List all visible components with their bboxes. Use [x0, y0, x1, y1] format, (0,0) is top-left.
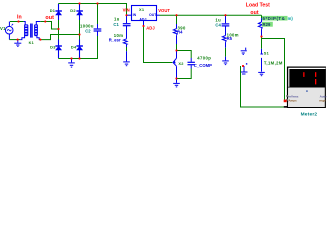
wire top rail to VIN — [59, 4, 127, 16]
junction dot secondary bottom pin — [39, 39, 41, 41]
junction dot meter minus — [242, 65, 244, 67]
meter digit segment 2 — [315, 72, 316, 77]
ground (floating, upper) — [241, 48, 247, 55]
diode D4 — [76, 40, 83, 59]
svg-text:R5: R5 — [227, 36, 233, 41]
svg-text:R_esr: R_esr — [109, 37, 121, 42]
svg-text:D2: D2 — [70, 8, 76, 13]
junction dot X2 top — [176, 50, 178, 52]
junction dot bridge left mid — [58, 28, 60, 30]
junction dot C4 top — [225, 14, 227, 16]
svg-text:R4: R4 — [177, 30, 183, 35]
ground (source/primary) — [14, 40, 21, 47]
wire secondary top to bridge left mid — [40, 22, 58, 30]
junction dot VIN — [126, 14, 128, 16]
node ADJ dot — [143, 25, 145, 27]
svg-text:K1: K1 — [29, 41, 34, 45]
wire load node to meter plus — [262, 37, 285, 100]
wire bottom rail — [59, 31, 98, 59]
junction dot D4 bottom — [79, 58, 81, 60]
capacitor C4 (output cap) — [225, 15, 227, 23]
wire R4 to X2 node — [176, 44, 178, 51]
junction dot bridge right mid — [79, 34, 81, 36]
resistor R4 — [176, 15, 178, 24]
svg-text:X2: X2 — [178, 61, 184, 66]
svg-text:rnge: rnge — [319, 98, 326, 102]
wire source bottom to transformer primary bottom — [10, 39, 21, 41]
meter digit segment 1 — [303, 72, 304, 77]
svg-text:C_COMP: C_COMP — [194, 63, 212, 68]
ground (R_esr) — [123, 62, 130, 66]
ground (R5) — [222, 61, 229, 65]
junction dot C2 top — [97, 3, 99, 5]
svg-text:X1: X1 — [139, 7, 145, 12]
ground (S1) — [258, 72, 265, 75]
wire meter minus — [241, 66, 285, 107]
node In dot — [18, 21, 20, 23]
junction dot ground bottom rail — [71, 58, 73, 60]
svg-text:D1: D1 — [50, 8, 56, 13]
svg-text:D3: D3 — [50, 45, 56, 50]
svg-text:In: In — [17, 14, 22, 20]
svg-text:C4: C4 — [215, 22, 221, 27]
junction dot R4 top — [176, 14, 178, 16]
capacitor C_COMP — [177, 51, 192, 59]
resistor R_esr — [126, 26, 128, 39]
wire secondary bottom to bridge right mid — [40, 35, 79, 40]
svg-text:OUT: OUT — [149, 13, 157, 17]
meter digit segment 3 — [315, 79, 316, 84]
svg-text:ADJ: ADJ — [146, 25, 155, 30]
switch S1 — [261, 37, 263, 49]
wire R_esr to ground — [126, 44, 128, 47]
regulator X1 — [132, 6, 157, 21]
svg-text:ADJ: ADJ — [139, 17, 146, 21]
wire R5 to ground — [225, 42, 227, 48]
diode D2 — [76, 4, 83, 20]
svg-text:IN: IN — [133, 13, 137, 17]
resistor R5 — [225, 26, 227, 36]
svg-text:Amps: Amps — [288, 98, 297, 102]
wire source top to transformer primary top — [10, 21, 24, 23]
node out dot — [44, 21, 46, 23]
svg-text:out: out — [250, 10, 258, 16]
transistor X2 — [173, 51, 177, 79]
svg-text:VIN: VIN — [123, 8, 130, 13]
svg-text:5*DIP(T&: 5*DIP(T& — [263, 16, 286, 21]
svg-text:C1: C1 — [113, 22, 119, 27]
svg-text:out: out — [45, 15, 54, 21]
meter minus terminal — [284, 106, 288, 108]
svg-text:S1: S1 — [264, 51, 270, 56]
ground (bottom rail) — [68, 59, 75, 68]
junction dots overlay — [17, 3, 263, 80]
svg-text:VOUT: VOUT — [158, 8, 170, 13]
svg-text:T,1M,2M: T,1M,2M — [264, 61, 283, 66]
junction dot at primary ground — [17, 39, 19, 41]
svg-text:Meter2: Meter2 — [301, 111, 318, 117]
capacitor C1 (input cap) — [126, 15, 128, 23]
svg-text:m): m) — [288, 16, 294, 21]
ground (X2) — [173, 79, 180, 87]
svg-text:D4: D4 — [71, 45, 77, 50]
transformer K1 — [20, 22, 40, 40]
svg-text:1u: 1u — [114, 17, 120, 22]
diode D1 — [55, 4, 62, 20]
svg-text:Load Test: Load Test — [246, 3, 270, 9]
capacitor C2 — [97, 4, 99, 25]
junction dot X2 bottom — [176, 78, 178, 80]
meter Meter2 — [284, 67, 327, 109]
wire ADJ to X2 base — [144, 26, 173, 63]
AC source V1 — [5, 22, 13, 40]
svg-text:4700p: 4700p — [197, 56, 211, 61]
diode D3 — [55, 40, 62, 59]
wire bridge right rail — [79, 4, 81, 59]
junction dot D2 top — [79, 3, 81, 5]
pin dot (unconnected) — [246, 63, 247, 64]
load resistor R29 (selected) — [261, 15, 263, 18]
ground (meter minus) — [241, 66, 248, 74]
junction dot load node — [261, 36, 263, 38]
svg-text:V1: V1 — [0, 26, 6, 31]
name highlight R29 — [262, 22, 273, 27]
meter plus terminal — [286, 95, 288, 97]
wire bridge left rail — [58, 4, 60, 59]
wire VOUT rail — [160, 14, 262, 16]
svg-text:C2: C2 — [85, 28, 91, 33]
svg-text:R29: R29 — [263, 22, 272, 27]
value highlight 5*DIP(T&m) — [262, 16, 288, 21]
